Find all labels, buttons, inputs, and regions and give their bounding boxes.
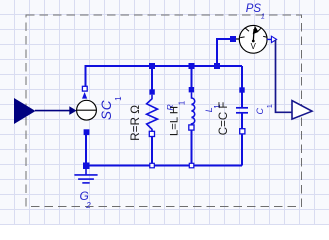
wire: inductor branch bbox=[191, 66, 193, 90]
input port In1 bbox=[14, 98, 36, 124]
bottom bus wire bbox=[86, 165, 242, 167]
svg-text:PS: PS bbox=[246, 3, 262, 15]
svg-text:C=C F: C=C F bbox=[218, 102, 230, 136]
inductor L1 bbox=[189, 87, 195, 130]
svg-text:SC: SC bbox=[99, 100, 114, 120]
junction square on top bus at L bbox=[189, 63, 195, 69]
wire: top bus to probe PS1 bbox=[217, 39, 231, 66]
signal wire: input to SC1 bbox=[35, 106, 77, 115]
ground G2 bbox=[74, 169, 97, 183]
output port Out1 bbox=[292, 101, 312, 120]
label R1 name bbox=[165, 100, 187, 110]
svg-text:L=L H: L=L H bbox=[168, 106, 180, 136]
wire: capacitor branch bbox=[241, 66, 243, 107]
current source SC1 bbox=[77, 86, 97, 135]
svg-text:1: 1 bbox=[178, 100, 187, 105]
signal wire: probe output to output port bbox=[276, 40, 293, 112]
svg-text:1: 1 bbox=[265, 104, 274, 108]
subsystem boundary dashed box bbox=[26, 15, 302, 207]
wire: resistor branch bbox=[151, 66, 153, 92]
junction square on top bus at probe bbox=[214, 63, 220, 69]
wire: SC1 bottom to bottom bus bbox=[85, 133, 87, 166]
label SC1 bbox=[99, 96, 123, 120]
junction square at ground node bbox=[83, 163, 90, 170]
voltmeter probe PS1 bbox=[236, 25, 277, 53]
label G2 bbox=[80, 189, 92, 210]
svg-text:1: 1 bbox=[114, 96, 123, 101]
junction square on top bus at R bbox=[149, 63, 155, 69]
label L1 name bbox=[204, 104, 222, 113]
resistor R1 bbox=[147, 89, 158, 136]
junction square at probe left terminal bbox=[230, 36, 236, 42]
svg-text:2: 2 bbox=[85, 201, 91, 210]
svg-text:R=R Ω: R=R Ω bbox=[128, 105, 142, 141]
svg-text:C: C bbox=[255, 108, 265, 115]
svg-text:1: 1 bbox=[261, 12, 265, 21]
label C1 name bbox=[255, 104, 274, 114]
svg-text:V: V bbox=[251, 42, 257, 51]
wire: SC1 top port to top bus bbox=[86, 66, 243, 88]
label PS1 bbox=[246, 3, 265, 21]
capacitor C1 bbox=[236, 87, 248, 134]
hollow junction square bottom bus at R bbox=[150, 163, 155, 168]
hollow junction square bottom bus at L bbox=[189, 163, 194, 168]
